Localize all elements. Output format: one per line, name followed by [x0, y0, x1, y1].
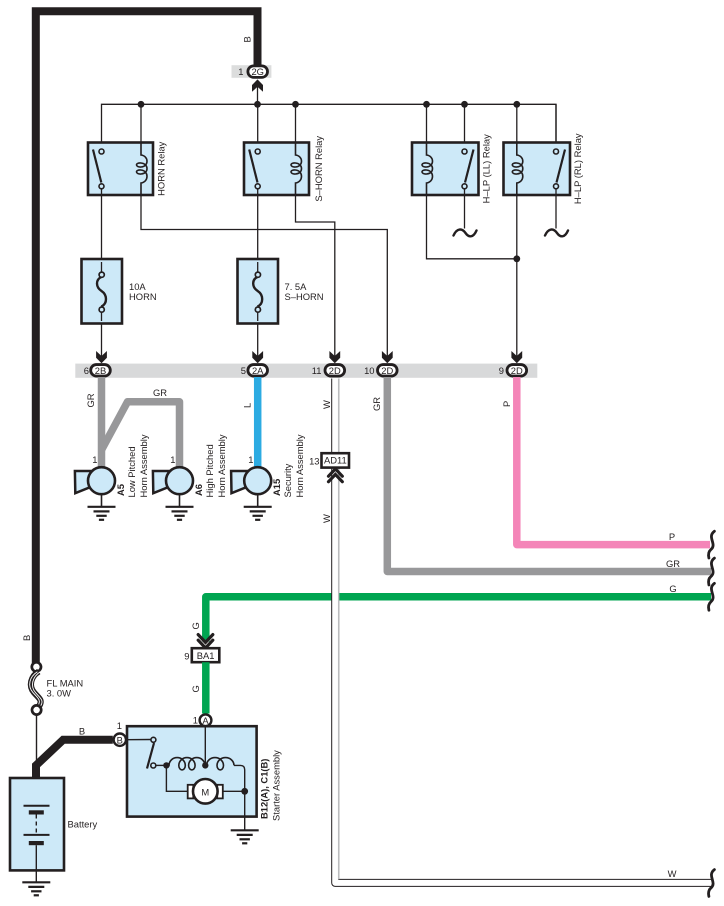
- node dot bus/2G and S-HORN switch: [254, 101, 261, 149]
- svg-text:1: 1: [117, 720, 122, 731]
- label G (right horizontal): [669, 583, 676, 594]
- svg-text:W: W: [668, 868, 677, 879]
- break squiggle W right edge: [708, 870, 714, 897]
- svg-text:2A: 2A: [252, 365, 264, 376]
- svg-text:B: B: [242, 36, 253, 42]
- svg-text:G: G: [190, 622, 201, 629]
- connector 6 2B: [84, 365, 111, 377]
- starter assembly box B12(A) C1(B): [127, 726, 257, 816]
- ground horn A6: [166, 507, 194, 520]
- connector 5 2A: [241, 365, 268, 377]
- svg-text:G: G: [190, 685, 201, 692]
- label GR (A6 branch): [153, 387, 167, 398]
- label W (above AD11): [321, 400, 332, 409]
- svg-text:B: B: [117, 734, 123, 745]
- svg-text:2B: 2B: [95, 365, 106, 376]
- svg-text:9: 9: [499, 365, 504, 376]
- svg-text:9: 9: [184, 650, 189, 661]
- label GR (right horizontal): [666, 558, 680, 569]
- label W (bottom horizontal): [668, 868, 677, 879]
- svg-text:HORN: HORN: [129, 291, 157, 302]
- wire GR from 10 2D down and right to edge: [387, 377, 711, 572]
- wire P from 9 2D down and right to edge: [517, 377, 710, 545]
- label 7.5A S-HORN: [285, 281, 324, 302]
- wire H-LP RL switch stub: [555, 189, 557, 229]
- wire bus right end to RL switch: [555, 104, 557, 149]
- svg-text:2G: 2G: [251, 66, 264, 77]
- svg-text:A5: A5: [115, 484, 126, 496]
- wire G horizontal from right edge to BA1 drop: [206, 597, 711, 642]
- connector 11 2D: [312, 365, 345, 377]
- connector arrow into 9 2D: [511, 351, 522, 363]
- svg-text:Low Pitched: Low Pitched: [126, 446, 137, 497]
- svg-text:HORN Relay: HORN Relay: [156, 141, 167, 195]
- label B (top right vertical wire): [242, 36, 253, 42]
- svg-text:B: B: [21, 635, 32, 641]
- wire W from 11 2D down and right to edge: [335, 379, 711, 883]
- svg-text:P: P: [669, 531, 675, 542]
- svg-text:Security: Security: [282, 463, 293, 497]
- node dot bus/H-LP RL coil: [513, 101, 520, 143]
- svg-text:11: 11: [312, 365, 322, 376]
- label A6: [193, 484, 204, 496]
- wire HORN relay switch to fuse 10A: [101, 189, 103, 259]
- svg-text:B12(A), C1(B): B12(A), C1(B): [259, 759, 270, 819]
- label Battery: [68, 819, 98, 830]
- wire switch to coil junction: [156, 764, 166, 766]
- label HORN Relay: [156, 141, 167, 195]
- connector arrow into 10 2D: [382, 351, 393, 363]
- starter internal switch: [126, 737, 156, 768]
- svg-text:M: M: [201, 786, 209, 797]
- battery cell symbol: [24, 806, 50, 882]
- wire coil to motor right side: [234, 765, 245, 791]
- node dot starter coil left: [163, 762, 169, 768]
- node dot bus/S-HORN coil: [292, 101, 299, 143]
- relay H-LP (RL): [504, 143, 571, 196]
- horn A15 Security Horn Assembly: [231, 467, 271, 507]
- label Low Pitched Horn Assembly: [126, 434, 149, 497]
- label A5: [115, 484, 126, 496]
- label Starter Assembly: [271, 750, 282, 821]
- label 1 (A15 pin): [248, 454, 253, 465]
- wire H-LP LL switch stub: [464, 189, 466, 229]
- label L: [242, 403, 253, 408]
- ground horn A5: [88, 507, 116, 520]
- svg-text:W: W: [321, 514, 332, 523]
- relay S-HORN: [244, 143, 309, 196]
- svg-text:H–LP (RL) Relay: H–LP (RL) Relay: [572, 133, 583, 204]
- break squiggle LL switch: [454, 230, 477, 237]
- ground starter: [231, 830, 259, 843]
- horn A5 Low Pitched Horn Assembly: [75, 467, 115, 507]
- node dot junction LL/RL coil: [513, 255, 520, 262]
- svg-text:A6: A6: [193, 484, 204, 496]
- wire GR branch to horn A6: [102, 402, 180, 468]
- svg-text:2D: 2D: [511, 365, 523, 376]
- label FL MAIN 3.0W: [47, 678, 84, 699]
- wire B thick battery to starter pin B: [36, 740, 113, 778]
- svg-text:13: 13: [309, 455, 319, 466]
- label High Pitched Horn Assembly: [204, 434, 227, 497]
- label GR (A5 drop): [85, 393, 96, 407]
- fuse 7.5A S-HORN: [238, 259, 279, 324]
- svg-text:Horn Assembly: Horn Assembly: [216, 434, 227, 497]
- connector 9 2D: [499, 365, 527, 377]
- svg-text:W: W: [321, 400, 332, 409]
- connector 10 2D: [364, 365, 397, 377]
- svg-text:B: B: [79, 726, 85, 737]
- svg-text:1: 1: [248, 454, 253, 465]
- svg-text:Horn Assembly: Horn Assembly: [138, 434, 149, 497]
- wire L from 2A to horn A15: [254, 377, 262, 468]
- svg-text:GR: GR: [666, 558, 680, 569]
- connector 13 AD11: [309, 453, 349, 467]
- wire HORN relay coil to connector 10 2D: [141, 195, 387, 357]
- svg-text:Battery: Battery: [68, 819, 98, 830]
- svg-text:G: G: [669, 583, 676, 594]
- svg-text:High Pitched: High Pitched: [204, 444, 215, 497]
- wire top bus: [102, 104, 557, 149]
- label 1 (starter pin A): [193, 715, 198, 726]
- circle FL MAIN bottom: [32, 705, 41, 714]
- svg-text:2D: 2D: [381, 365, 393, 376]
- connector 1 2G: [232, 65, 272, 78]
- break squiggle GR right edge: [708, 558, 714, 585]
- wire S-HORN relay coil to connector 11 2D: [296, 195, 335, 357]
- break squiggle RL switch: [545, 230, 568, 237]
- wire coil junction down to motor left side: [166, 765, 188, 791]
- label P (9 2D drop): [501, 401, 512, 407]
- connector arrow up below 2G: [252, 79, 263, 104]
- label S-HORN Relay: [313, 136, 324, 202]
- svg-text:A15: A15: [271, 479, 282, 496]
- wire starter to ground: [244, 791, 246, 830]
- connector chevrons down above BA1: [198, 635, 213, 648]
- label A15: [271, 479, 282, 496]
- connector arrow into 5 2A: [252, 351, 263, 363]
- label 1 (A6 pin): [170, 454, 175, 465]
- label 10A HORN: [129, 281, 157, 302]
- svg-text:1: 1: [238, 66, 243, 77]
- wire FL MAIN to battery plate: [36, 715, 38, 806]
- label P (right horizontal): [669, 531, 675, 542]
- label 1 (A5 pin): [92, 454, 97, 465]
- connector chevrons up below AD11: [329, 469, 343, 482]
- label G (below BA1): [190, 685, 201, 692]
- wire pin A into coil junction: [204, 726, 206, 765]
- ground battery: [22, 882, 50, 895]
- label GR (10 2D drop): [371, 397, 382, 411]
- svg-text:S–HORN Relay: S–HORN Relay: [313, 136, 324, 202]
- svg-text:2D: 2D: [329, 365, 341, 376]
- label H-LP (LL) Relay: [481, 134, 492, 203]
- break squiggle G right edge: [708, 583, 714, 610]
- svg-text:Horn Assembly: Horn Assembly: [294, 434, 305, 497]
- label Security Horn Assembly: [282, 434, 305, 497]
- node dot bus/HORN coil: [138, 101, 145, 143]
- svg-text:GR: GR: [85, 393, 96, 407]
- label H-LP (RL) Relay: [572, 133, 583, 204]
- node dot bus/H-LP LL coil: [423, 101, 430, 143]
- starter hold-in coil: [166, 758, 205, 770]
- label B12(A), C1(B): [259, 759, 270, 819]
- svg-text:A: A: [202, 715, 209, 726]
- relay HORN: [88, 143, 153, 196]
- fuse 10A HORN: [82, 259, 123, 324]
- svg-text:P: P: [501, 401, 512, 407]
- label B (battery-starter wire): [79, 726, 85, 737]
- svg-text:5: 5: [241, 365, 246, 376]
- wire motor right brush to junction: [223, 790, 245, 792]
- svg-text:S–HORN: S–HORN: [285, 291, 324, 302]
- svg-text:10: 10: [364, 365, 374, 376]
- node dot bus/H-LP LL switch: [461, 101, 468, 149]
- node dot starter coil centre: [202, 762, 208, 768]
- svg-text:AD11: AD11: [324, 455, 347, 466]
- wire fuse 10A to connector 6 2B: [101, 324, 103, 358]
- svg-text:3. 0W: 3. 0W: [47, 687, 72, 698]
- connector arrow into 6 2B: [96, 351, 107, 363]
- svg-text:1: 1: [193, 715, 198, 726]
- connector arrow into 11 2D: [329, 351, 340, 363]
- junction bus bar (gray band): [75, 364, 537, 378]
- relay H-LP (LL): [412, 143, 479, 196]
- svg-text:H–LP (LL) Relay: H–LP (LL) Relay: [481, 134, 492, 203]
- break squiggle P right edge: [708, 531, 714, 558]
- svg-text:1: 1: [92, 454, 97, 465]
- pin B circle starter: [114, 734, 126, 746]
- wire H-LP RL coil to connector 9 2D: [516, 195, 518, 357]
- label B (left vertical wire): [21, 635, 32, 641]
- wire B thick battery feed: left vertical, top run, drop to 2G: [36, 11, 258, 663]
- wire H-LP LL coil to RL coil junction: [427, 195, 517, 259]
- svg-text:L: L: [242, 403, 253, 408]
- wire GR from 2B to horn A5: [98, 377, 106, 468]
- label W (below AD11): [321, 514, 332, 523]
- wire S-HORN relay switch to fuse 7.5A: [257, 189, 259, 259]
- node dot starter right: [241, 788, 248, 795]
- battery box: [10, 778, 64, 870]
- horn A6 High Pitched Horn Assembly: [153, 467, 193, 507]
- wire G from BA1 to starter pin A: [202, 662, 210, 713]
- circle FL MAIN top: [32, 662, 41, 671]
- fusible link FL MAIN squiggle: [30, 672, 42, 706]
- wire fuse 7.5A to connector 5 2A: [257, 324, 259, 358]
- svg-text:BA1: BA1: [197, 650, 215, 661]
- connector 9 BA1: [184, 648, 219, 662]
- starter pull-in coil: [205, 758, 234, 770]
- svg-text:1: 1: [170, 454, 175, 465]
- svg-text:Starter Assembly: Starter Assembly: [271, 750, 282, 821]
- svg-text:GR: GR: [371, 397, 382, 411]
- motor M starter: [188, 779, 223, 804]
- pin A circle starter: [200, 714, 212, 726]
- svg-text:GR: GR: [153, 387, 167, 398]
- label G (above BA1): [190, 622, 201, 629]
- ground horn A15: [244, 507, 272, 520]
- label 1 (starter pin B): [117, 720, 122, 731]
- svg-text:6: 6: [84, 365, 89, 376]
